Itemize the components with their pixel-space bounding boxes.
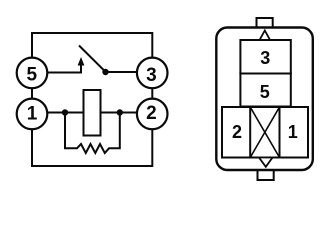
relay coil K1 — [84, 90, 101, 136]
resistor R1 (parallel with coil) — [65, 113, 120, 154]
wire contact to pin 3 — [106, 71, 139, 73]
terminal circle pin 3 — [137, 58, 168, 89]
terminal circle pin 1 — [17, 99, 48, 130]
terminal circle pin 2 — [137, 99, 168, 130]
switch blade — [79, 46, 106, 72]
connector cavity pin 3 — [240, 40, 290, 74]
connector cavity pin 5 — [240, 74, 290, 107]
node junction dot left — [62, 109, 68, 115]
connector bottom index triangle — [259, 158, 273, 167]
connector top mounting tab — [257, 18, 273, 29]
svg-text:3: 3 — [146, 65, 157, 86]
terminal circle pin 5 — [17, 58, 48, 89]
svg-text:2: 2 — [232, 122, 242, 142]
wire coil rail from pin 1 to pin 2 — [47, 112, 138, 114]
wire switch feed from pin 5 — [47, 65, 81, 73]
node junction dot right — [117, 109, 123, 115]
connector top index triangle — [259, 31, 271, 42]
svg-text:1: 1 — [288, 122, 298, 142]
wire outer rectangle of relay schematic — [32, 33, 152, 166]
svg-text:3: 3 — [260, 48, 270, 68]
svg-text:5: 5 — [260, 82, 270, 102]
connector bottom mounting tab — [258, 169, 274, 180]
svg-text:1: 1 — [27, 103, 38, 124]
switch movable-contact arrow — [78, 57, 85, 66]
connector body outline — [216, 28, 312, 171]
svg-text:2: 2 — [146, 103, 157, 124]
connector keyway box with X — [250, 107, 279, 158]
node switch contact dot — [102, 69, 108, 75]
connector lower cavity row (pins 2 and 1) — [222, 107, 308, 158]
svg-text:5: 5 — [27, 64, 38, 85]
